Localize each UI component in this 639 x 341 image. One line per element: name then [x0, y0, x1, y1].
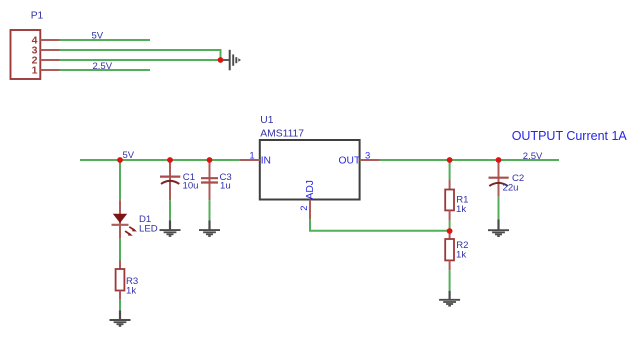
capacitor C3 — [201, 160, 218, 200]
U1 pin 3 stub — [360, 159, 380, 161]
svg-text:OUT: OUT — [339, 155, 361, 166]
junction node R1 — [447, 157, 453, 163]
svg-text:3: 3 — [365, 151, 370, 162]
svg-text:22u: 22u — [503, 183, 519, 194]
P1 pin 3 stub — [40, 49, 59, 51]
op-amp U1 box — [260, 140, 360, 200]
svg-text:P1: P1 — [31, 10, 44, 21]
capacitor C1 — [160, 160, 180, 200]
P1 pin 1 stub — [40, 69, 59, 71]
svg-text:1k: 1k — [126, 285, 136, 296]
svg-text:1k: 1k — [456, 249, 466, 260]
ground under C2 — [488, 219, 509, 236]
junction P1 ground node — [218, 57, 224, 63]
P1 pin 2 stub — [40, 59, 59, 61]
ground under C1 — [160, 220, 181, 236]
U1 pin 1 stub — [240, 159, 260, 161]
svg-text:5V: 5V — [92, 30, 104, 41]
resistor R2 — [445, 231, 454, 270]
wire R3 to ground — [119, 299, 121, 310]
svg-text:2.5V: 2.5V — [93, 61, 113, 72]
svg-text:ADJ: ADJ — [305, 180, 316, 199]
ground under R3 — [110, 310, 131, 326]
svg-text:1k: 1k — [456, 204, 466, 215]
svg-text:5V: 5V — [123, 150, 135, 161]
wire ADJ feedback — [310, 219, 450, 231]
junction node ADJ/R1/R2 — [447, 228, 453, 234]
wire rail to R1 — [449, 160, 451, 179]
wire C3 to ground — [209, 200, 211, 220]
ground under R2 — [439, 291, 460, 306]
svg-text:OUTPUT Current 1A: OUTPUT Current 1A — [512, 129, 628, 143]
wire input rail 5V — [80, 159, 240, 161]
wire 2.5V (pin 1) — [60, 69, 151, 71]
junction node C1 — [167, 157, 173, 163]
wire R1 to ADJ node — [449, 221, 451, 231]
svg-text:LED: LED — [139, 224, 158, 235]
wire 5V (pin 4) — [60, 39, 151, 41]
U1 pin 2 stub (ADJ) — [309, 200, 311, 219]
junction node C3 — [207, 157, 213, 163]
ground under C3 — [199, 220, 220, 236]
svg-text:IN: IN — [261, 155, 271, 166]
wire D1 to R3 — [119, 239, 121, 261]
junction node C2 — [496, 157, 502, 163]
resistor R1 — [445, 179, 454, 220]
wire R2 to ground — [449, 270, 451, 291]
wire pin 2 to ground — [60, 59, 221, 61]
wire C1 to ground — [169, 200, 171, 220]
wire C2 to ground — [498, 197, 500, 220]
svg-text:2: 2 — [299, 206, 310, 211]
svg-text:1: 1 — [249, 151, 254, 162]
P1 pin 4 stub — [40, 39, 59, 41]
svg-text:1u: 1u — [220, 181, 231, 192]
svg-text:1: 1 — [32, 65, 38, 77]
svg-text:10u: 10u — [183, 181, 199, 192]
LED D1 — [112, 200, 137, 239]
svg-text:AMS1117: AMS1117 — [260, 129, 304, 140]
junction node D1 — [117, 157, 123, 163]
wire pin 3 to ground — [60, 50, 221, 60]
svg-text:U1: U1 — [260, 115, 273, 126]
wire output rail 2.5V — [380, 159, 560, 161]
connector P1 — [11, 30, 41, 79]
earth ground (rotated) — [222, 50, 241, 71]
wire node to D1 — [119, 160, 121, 200]
svg-text:2.5V: 2.5V — [523, 151, 543, 162]
resistor R3 — [116, 261, 125, 300]
capacitor C2 — [489, 160, 509, 197]
